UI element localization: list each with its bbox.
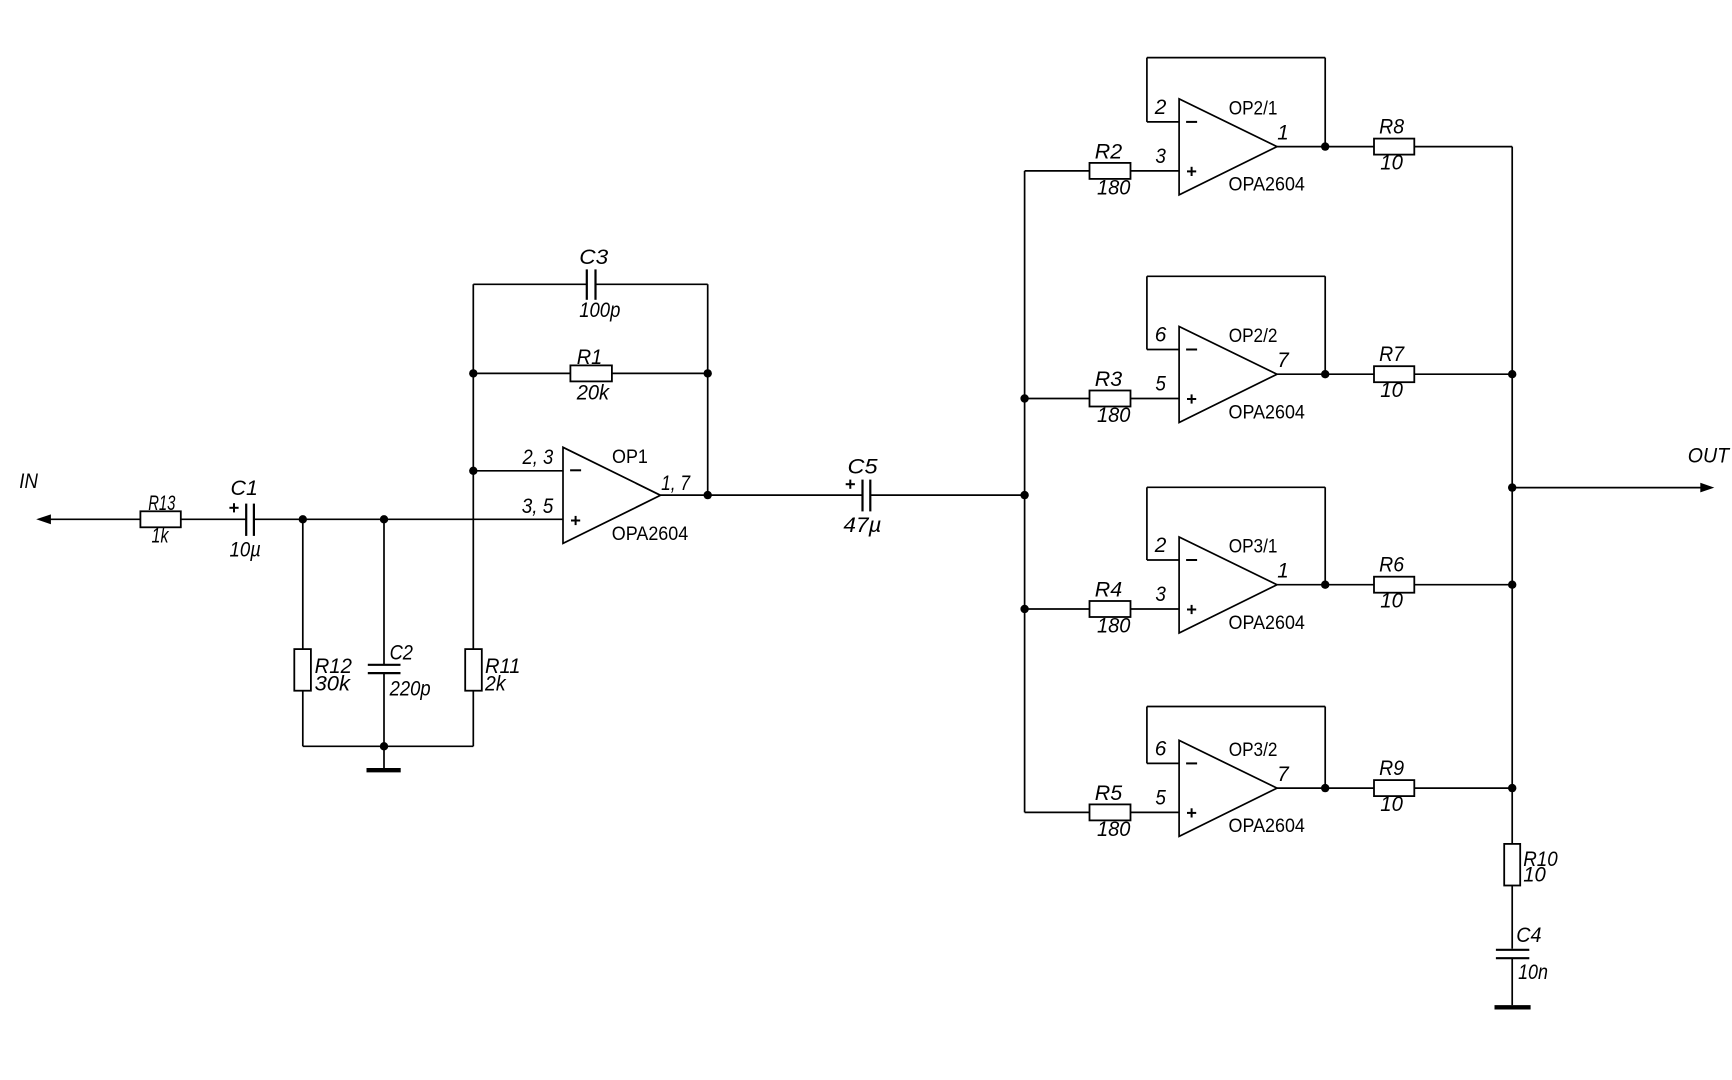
- R6 value 10: [1380, 589, 1403, 612]
- junction node main/R12: [299, 515, 307, 523]
- wire trunk to R4: [1025, 608, 1090, 610]
- pin number 6: [1155, 738, 1167, 761]
- svg-text:OPA2604: OPA2604: [1229, 401, 1306, 423]
- wire trunk to R5: [1025, 811, 1090, 813]
- wire R12 to ground rail: [302, 691, 304, 747]
- svg-text:C4: C4: [1516, 924, 1541, 947]
- wire OP2/1 output to bus: [1277, 146, 1512, 148]
- svg-text:R8: R8: [1379, 116, 1404, 139]
- pin number 1: [1277, 121, 1289, 144]
- svg-text:R13: R13: [148, 492, 175, 515]
- OP2/1 part OPA2604: [1229, 174, 1306, 196]
- node R1 right junction: [704, 369, 712, 377]
- R1 value 20k: [576, 381, 611, 404]
- wire OP1 inverting input stub: [473, 470, 563, 472]
- wire OP3/2 inverting input stub: [1147, 762, 1179, 764]
- R9 value 10: [1380, 793, 1403, 816]
- wire feedback left vertical: [472, 284, 474, 471]
- wire OP2/1 inverting input stub: [1147, 121, 1179, 123]
- R2 value 180: [1097, 176, 1131, 199]
- resistor R12: [294, 649, 311, 691]
- svg-text:OP3/1: OP3/1: [1229, 536, 1278, 558]
- svg-text:2: 2: [1154, 534, 1167, 557]
- pin number 5: [1155, 787, 1166, 810]
- R7 label: [1379, 343, 1405, 366]
- capacitor C1 plus polarity: [229, 503, 238, 512]
- svg-text:R7: R7: [1379, 343, 1405, 366]
- svg-text:5: 5: [1155, 787, 1166, 810]
- resistor R1: [570, 365, 612, 381]
- node OP2/2 output junction: [1321, 370, 1329, 378]
- svg-text:C3: C3: [579, 246, 608, 269]
- op-amp OP3/1: [1179, 537, 1277, 633]
- wire C4 to ground: [1511, 958, 1513, 1005]
- C1 label: [231, 477, 258, 500]
- IN terminal arrow: [36, 514, 51, 524]
- C4 label: [1516, 924, 1541, 947]
- resistor R13: [140, 511, 180, 527]
- wire OP2/2 feedback right vertical: [1324, 276, 1326, 374]
- wire C2 to ground rail: [383, 673, 385, 746]
- output bus wire: [1511, 147, 1513, 844]
- svg-text:100p: 100p: [579, 299, 620, 322]
- R7 value 10: [1380, 379, 1403, 402]
- pin number 2: [1154, 534, 1167, 557]
- OP2/1 designator: [1229, 97, 1278, 119]
- svg-text:7: 7: [1277, 763, 1290, 786]
- pin number 3: [1155, 583, 1166, 606]
- C3 label: [579, 246, 608, 269]
- OP2/2 designator: [1229, 325, 1278, 347]
- C2 value 220p: [389, 677, 431, 700]
- svg-text:OPA2604: OPA2604: [1229, 815, 1306, 837]
- wire R5 to OP3/2 noninverting input: [1131, 811, 1180, 813]
- junction trunk/R3 row: [1020, 394, 1028, 402]
- node OP3/2 output junction: [1321, 784, 1329, 792]
- OP3/2 designator: [1229, 739, 1278, 761]
- junction bus/OUT row: [1508, 483, 1516, 491]
- svg-text:180: 180: [1097, 404, 1131, 427]
- wire OP3/2 feedback left vertical: [1146, 707, 1148, 764]
- svg-text:1, 7: 1, 7: [661, 472, 691, 495]
- wire IN arrow to R13: [48, 518, 140, 520]
- svg-text:OPA2604: OPA2604: [1229, 612, 1306, 634]
- OP3/1 designator: [1229, 536, 1278, 558]
- capacitor C2: [368, 665, 401, 673]
- wire OP2/1 feedback right vertical: [1324, 58, 1326, 147]
- svg-text:3, 5: 3, 5: [522, 495, 554, 518]
- node OP3/1 output junction: [1321, 581, 1329, 589]
- wire OP3/1 inverting input stub: [1147, 559, 1179, 561]
- capacitor C1: [246, 504, 254, 536]
- svg-text:OP2/2: OP2/2: [1229, 325, 1278, 347]
- svg-text:OP3/2: OP3/2: [1229, 739, 1278, 761]
- op-amp OP2/2: [1179, 327, 1277, 423]
- svg-text:5: 5: [1155, 373, 1166, 396]
- ground rail wire: [303, 745, 474, 747]
- wire main to C2: [383, 519, 385, 664]
- pin number 3: [1155, 145, 1166, 168]
- svg-text:R1: R1: [577, 346, 603, 369]
- svg-text:2k: 2k: [484, 673, 507, 696]
- OP2/2 part OPA2604: [1229, 401, 1306, 423]
- R8 value 10: [1380, 151, 1403, 174]
- resistor R5: [1090, 804, 1131, 820]
- resistor R3: [1090, 391, 1131, 407]
- wire OP1 inverting node to R11: [472, 471, 474, 649]
- R10 value 10: [1523, 864, 1546, 887]
- wire OP3/1 feedback left vertical: [1146, 487, 1148, 560]
- C3 value 100p: [579, 299, 620, 322]
- wire OP3/1 feedback top: [1147, 486, 1325, 488]
- C2 label: [390, 641, 414, 664]
- svg-text:R5: R5: [1095, 782, 1123, 805]
- resistor R2: [1090, 163, 1131, 179]
- pin number 1: [1277, 560, 1289, 583]
- svg-text:3: 3: [1155, 583, 1166, 606]
- C1 value 10µ: [230, 538, 261, 561]
- R6 label: [1379, 554, 1404, 577]
- svg-text:1: 1: [1277, 121, 1289, 144]
- junction trunk/C5 row: [1020, 491, 1028, 499]
- svg-text:OPA2604: OPA2604: [612, 523, 689, 545]
- wire feedback top right segment: [596, 283, 708, 285]
- junction bus/R9 row: [1508, 784, 1516, 792]
- resistor R9: [1374, 780, 1414, 796]
- junction node main/C2: [380, 515, 388, 523]
- op-amp OP3/2: [1179, 740, 1277, 836]
- pin number 6: [1155, 324, 1167, 347]
- R5 value 180: [1097, 818, 1131, 841]
- svg-text:C5: C5: [848, 455, 878, 478]
- wire trunk to R2: [1025, 170, 1090, 172]
- node OP1 inverting input: [469, 467, 477, 475]
- OP3/1 part OPA2604: [1229, 612, 1306, 634]
- OP1 designator: [612, 446, 648, 468]
- R13 label: [148, 492, 175, 515]
- svg-text:OP2/1: OP2/1: [1229, 97, 1278, 119]
- wire R11 to ground rail: [472, 691, 474, 747]
- wire R1 row: [473, 372, 707, 374]
- distribution trunk wire: [1024, 171, 1026, 813]
- svg-text:R9: R9: [1379, 757, 1404, 780]
- wire feedback right vertical: [707, 284, 709, 495]
- pin label 3, 5: [522, 495, 554, 518]
- C5 value 47µ: [843, 514, 881, 537]
- resistor R8: [1374, 139, 1414, 155]
- svg-text:1k: 1k: [152, 524, 170, 547]
- wire main to R12: [302, 519, 304, 649]
- svg-text:180: 180: [1097, 615, 1131, 638]
- op-amp OP1: [563, 447, 661, 543]
- C5 label: [848, 455, 878, 478]
- C4 value 10n: [1518, 961, 1548, 984]
- pin number 7: [1277, 349, 1290, 372]
- pin number 7: [1277, 763, 1290, 786]
- svg-text:OP1: OP1: [612, 446, 648, 468]
- svg-text:C1: C1: [231, 477, 258, 500]
- wire OP1 output to C5: [661, 494, 863, 496]
- svg-text:10: 10: [1523, 864, 1546, 887]
- wire trunk to R3: [1025, 398, 1090, 400]
- capacitor C5 plus polarity: [846, 480, 855, 489]
- node R1 left junction: [469, 369, 477, 377]
- R4 label: [1095, 579, 1122, 602]
- capacitor C5: [863, 480, 871, 512]
- svg-text:6: 6: [1155, 324, 1167, 347]
- resistor R11: [465, 649, 482, 691]
- svg-text:10: 10: [1380, 151, 1403, 174]
- svg-text:10: 10: [1380, 793, 1403, 816]
- svg-text:6: 6: [1155, 738, 1167, 761]
- wire R2 to OP2/1 noninverting input: [1131, 170, 1180, 172]
- R4 value 180: [1097, 615, 1131, 638]
- svg-text:1: 1: [1277, 560, 1289, 583]
- svg-text:R6: R6: [1379, 554, 1404, 577]
- wire OP3/2 feedback right vertical: [1324, 707, 1326, 789]
- wire OP2/2 output to bus: [1277, 373, 1512, 375]
- node OP2/1 output junction: [1321, 142, 1329, 150]
- wire R4 to OP3/1 noninverting input: [1131, 608, 1180, 610]
- wire OP2/2 feedback top: [1147, 275, 1325, 277]
- svg-text:OPA2604: OPA2604: [1229, 174, 1306, 196]
- OP3/2 part OPA2604: [1229, 815, 1306, 837]
- R13 value 1k: [152, 524, 170, 547]
- junction bus/R7 row: [1508, 370, 1516, 378]
- wire OP3/1 feedback right vertical: [1324, 487, 1326, 584]
- svg-text:30k: 30k: [315, 673, 352, 696]
- wire R10 to C4: [1511, 886, 1513, 949]
- svg-text:180: 180: [1097, 818, 1131, 841]
- pin label 1, 7: [661, 472, 691, 495]
- pin number 2: [1154, 96, 1167, 119]
- pin number 5: [1155, 373, 1166, 396]
- svg-text:10: 10: [1380, 379, 1403, 402]
- R2 label: [1095, 141, 1123, 164]
- R8 label: [1379, 116, 1404, 139]
- svg-text:2, 3: 2, 3: [522, 446, 554, 469]
- wire C5 to distribution node: [870, 494, 1024, 496]
- OUT terminal arrow: [1700, 483, 1714, 493]
- wire C1 to OP1 noninverting input: [254, 518, 563, 520]
- wire OP3/2 feedback top: [1147, 706, 1325, 708]
- resistor R7: [1374, 366, 1414, 382]
- svg-text:C2: C2: [390, 641, 414, 664]
- wire OP2/1 feedback top: [1147, 57, 1325, 59]
- svg-text:3: 3: [1155, 145, 1166, 168]
- R11 value 2k: [484, 673, 507, 696]
- wire OP2/2 inverting input stub: [1147, 349, 1179, 351]
- OP1 part OPA2604: [612, 523, 689, 545]
- junction node ground rail: [380, 742, 388, 750]
- svg-text:180: 180: [1097, 176, 1131, 199]
- svg-text:10µ: 10µ: [230, 538, 261, 561]
- wire bus to OUT arrow: [1512, 487, 1702, 489]
- capacitor C3: [587, 269, 596, 299]
- R3 value 180: [1097, 404, 1131, 427]
- R12 value 30k: [315, 673, 352, 696]
- node IN label: [19, 470, 38, 493]
- svg-text:R4: R4: [1095, 579, 1122, 602]
- svg-text:2: 2: [1154, 96, 1167, 119]
- R3 label: [1095, 368, 1123, 391]
- svg-text:R2: R2: [1095, 141, 1123, 164]
- svg-text:7: 7: [1277, 349, 1290, 372]
- node OUT label: [1688, 444, 1731, 467]
- wire R13 to C1: [181, 518, 246, 520]
- resistor R4: [1090, 601, 1131, 617]
- wire OP2/1 feedback left vertical: [1146, 58, 1148, 122]
- svg-text:IN: IN: [19, 470, 38, 493]
- svg-text:OUT: OUT: [1688, 444, 1731, 467]
- svg-text:20k: 20k: [576, 381, 611, 404]
- R1 label: [577, 346, 603, 369]
- wire OP3/2 output to bus: [1277, 787, 1512, 789]
- pin label 2, 3: [522, 446, 554, 469]
- wire feedback top left segment: [473, 283, 587, 285]
- ground symbol at C4: [1495, 1005, 1531, 1009]
- wire OP3/1 output to bus: [1277, 584, 1512, 586]
- svg-text:10: 10: [1380, 589, 1403, 612]
- junction trunk/R4 row: [1020, 605, 1028, 613]
- R11 label: [485, 655, 520, 678]
- capacitor C4: [1496, 950, 1529, 958]
- resistor R10: [1504, 844, 1520, 886]
- node OP1 output: [704, 491, 712, 499]
- svg-text:10n: 10n: [1518, 961, 1548, 984]
- wire R3 to OP2/2 noninverting input: [1131, 398, 1180, 400]
- resistor R6: [1374, 577, 1414, 593]
- op-amp OP2/1: [1179, 99, 1277, 195]
- R12 label: [315, 655, 353, 678]
- ground symbol: [367, 746, 401, 770]
- R9 label: [1379, 757, 1404, 780]
- svg-text:R3: R3: [1095, 368, 1123, 391]
- R10 label: [1523, 848, 1558, 871]
- R5 label: [1095, 782, 1123, 805]
- wire OP2/2 feedback left vertical: [1146, 276, 1148, 349]
- svg-text:220p: 220p: [389, 677, 431, 700]
- junction bus/R6 row: [1508, 581, 1516, 589]
- svg-text:47µ: 47µ: [843, 514, 881, 537]
